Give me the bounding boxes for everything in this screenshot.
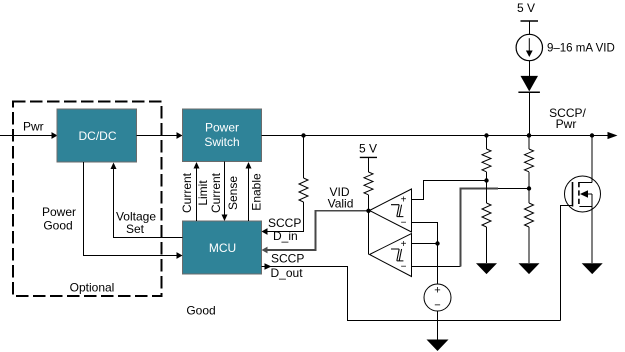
node: bus to diode feed [527,133,531,137]
ground (right divider) [519,263,540,274]
wire: upper comparator - input to reference node [412,223,438,244]
wire: upper comparator + input to left divider tap [412,181,487,200]
svg-text:5 V: 5 V [359,142,377,156]
diode D1 [518,76,540,92]
comparator U1 (upper, output to left) [370,189,412,232]
resistor: left divider lower [482,203,491,227]
wire: VID Valid to MCU (gray) [268,211,369,250]
svg-text:D_out: D_out [271,266,304,280]
resistor: left divider upper [482,149,491,172]
svg-text:Current: Current [209,172,223,213]
power symbol 5 V (current source) [521,20,539,22]
svg-text:SCCP: SCCP [271,252,304,266]
ground (voltage source) [427,340,449,352]
svg-text:MCU: MCU [209,241,236,255]
wire: Voltage Set (MCU to DC/DC) [114,169,183,238]
wire: DC/DC output to Power Switch [137,135,178,137]
svg-text:Power: Power [42,205,76,219]
node: VID Valid junction [366,209,370,213]
svg-text:Optional: Optional [70,281,115,295]
svg-text:−: − [401,262,407,273]
wire: SCCP D_out from MCU to MOSFET gate [262,267,561,321]
svg-text:Pwr: Pwr [556,117,577,131]
current source I1 [516,34,542,60]
svg-text:−: − [434,300,440,312]
node: right divider tap [527,186,531,190]
optional dashed boundary box [13,102,162,297]
svg-text:Enable: Enable [250,173,264,211]
wire: MOSFET source to ground [591,207,593,264]
wire: lower comparator + input to reference node [412,243,438,245]
wire: VID Valid node down to lower comparator output [368,211,370,255]
svg-text:5 V: 5 V [517,1,535,15]
svg-text:Switch: Switch [204,135,239,149]
svg-text:Set: Set [126,222,145,236]
resistor divider: left leg from bus [486,136,488,150]
wire: voltage source to ground [437,311,439,340]
svg-text:Limit: Limit [196,180,210,206]
wire: drop to SCCP D_in resistor [303,136,305,179]
ground (left divider) [476,263,497,274]
wire: 5V to pull-up resistor [367,157,369,172]
svg-text:Sense: Sense [226,176,240,210]
svg-text:+: + [434,285,440,297]
svg-text:−: − [401,218,407,229]
svg-text:Power: Power [205,121,239,135]
svg-text:Good: Good [43,219,72,233]
wire: main SCCP/Pwr bus [262,135,609,137]
resistor: VID Valid pull-up [364,172,373,195]
ground (MOSFET source) [582,263,603,274]
wire: 5V to current source [528,21,530,35]
wire: Current Sense (Power Switch to MCU) [224,162,226,216]
resistor: right divider lower [525,203,534,227]
wire: current source to diode [528,61,530,77]
svg-text:Valid: Valid [328,197,354,211]
wire: to left tap [486,172,488,203]
svg-text:9–16 mA VID: 9–16 mA VID [547,43,615,55]
svg-text:+: + [401,239,407,250]
block DC/DC [57,109,137,162]
comparator U2 (lower, output to left) [370,234,412,277]
wire: right divider to ground [528,227,530,263]
wire: diode to bus [528,92,530,135]
wire: Power Good (DC/DC to MCU) [84,162,178,256]
svg-text:+: + [401,195,407,206]
svg-text:Current: Current [180,172,194,213]
wire: Current Limit (MCU to Power Switch) [196,168,198,221]
svg-text:SCCP: SCCP [268,216,301,230]
node: bus to D_in resistor [301,133,305,137]
svg-text:D_in: D_in [273,229,298,243]
svg-text:Good: Good [186,304,215,318]
power symbol 5 V (comparator pull-up) [360,156,377,158]
node: bus to left divider [484,133,488,137]
node: reference junction [435,241,439,245]
wire: lower comparator - input to right divider tap [412,266,461,268]
wire: pull-up resistor to VID Valid node [368,195,370,211]
resistor: SCCP D_in series [299,178,308,202]
resistor: right divider upper [525,149,534,172]
wire: to right tap [528,172,530,203]
resistor divider: right leg from bus [528,136,530,150]
svg-text:DC/DC: DC/DC [79,129,117,143]
wire: left divider to ground [486,227,488,263]
wire: Pwr input into DC/DC [0,135,52,137]
node: left divider tap [484,178,488,182]
node: bus to MOSFET [590,133,594,137]
wire: Enable (MCU to Power Switch) [248,168,250,221]
block MCU [183,221,262,274]
wire: bus to MOSFET drain [591,136,593,183]
svg-text:Pwr: Pwr [23,120,44,134]
node: bus to right divider [527,133,531,137]
block Power Switch [183,109,262,162]
voltage source V1 [437,244,439,285]
transistor Q1 (N-MOSFET) [565,176,601,212]
wire: resistor to MCU SCCP D_in [267,202,304,232]
